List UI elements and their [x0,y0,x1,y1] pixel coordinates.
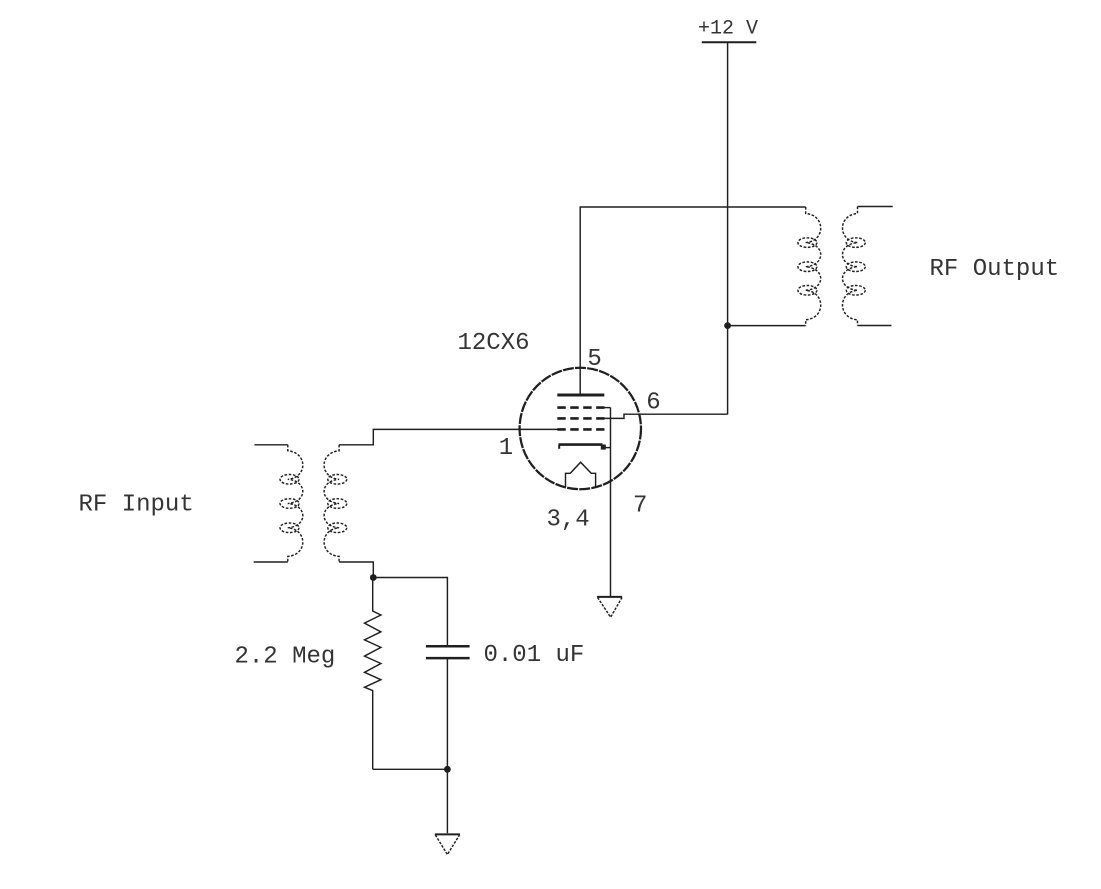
wire capacitor bottom lead [446,658,448,769]
svg-text:6: 6 [646,389,660,416]
tube V1 12CX6 envelope [520,368,641,489]
wire screen grid to +12V node (pin 6) [604,414,727,418]
svg-text:5: 5 [587,346,601,373]
capacitor C1 plates [426,645,470,648]
junction dot grid-leak node [370,574,377,581]
wire output secondary top lead [858,206,893,208]
svg-text:3,4: 3,4 [547,507,590,534]
svg-text:0.01 uF: 0.01 uF [484,642,585,669]
svg-text:12CX6: 12CX6 [458,330,530,357]
ground below tube cathode [597,596,622,598]
wire input primary bottom lead [254,561,288,563]
svg-text:+12 V: +12 V [698,18,758,41]
wire cathode to pin7 line [606,447,611,449]
wire suppressor/cathode vertical down to ground (pin 7) [610,408,612,597]
svg-text:2.2 Meg: 2.2 Meg [235,644,336,671]
transformer T1 input secondary winding [324,445,347,562]
wire output primary bottom lead [728,325,806,327]
junction dot at +12V / primary / screen node [724,322,731,329]
tube grid g1 row (control) [557,428,604,431]
wire resistor bottom to capacitor bottom [373,768,448,770]
tube grid g2 row (screen) [557,417,604,420]
svg-text:RF Output: RF Output [930,256,1060,283]
tube cathode [559,443,603,446]
tube grid g3 row (suppressor) [557,406,604,409]
resistor R1 2.2 Meg [365,578,381,770]
wire node to capacitor branch [373,578,447,647]
power +12V rail bar [702,41,757,43]
tube plate (anode) [557,394,604,397]
transformer T1 input primary winding [280,445,303,562]
tube heater filament [566,462,596,487]
transformer T2 output primary winding [798,207,821,326]
svg-text:RF Input: RF Input [79,492,194,519]
wire input secondary bottom lead to node [339,562,373,578]
wire input primary top lead [254,444,287,446]
wire plate lead: tube plate up and across to output transformer primary [580,207,806,395]
wire +12V vertical down to screen/primary junction [727,42,729,414]
wire bottom node to ground [446,769,448,833]
ground below RC network [435,833,460,835]
wire output secondary bottom lead [858,325,892,327]
svg-text:7: 7 [633,492,647,519]
svg-text:1: 1 [499,435,513,462]
wire input secondary top lead to tube grid pin 1 [339,429,558,444]
junction dot bottom node [444,766,451,773]
wire g3 connector to cathode line [604,407,610,409]
transformer T2 output secondary winding [843,207,866,326]
